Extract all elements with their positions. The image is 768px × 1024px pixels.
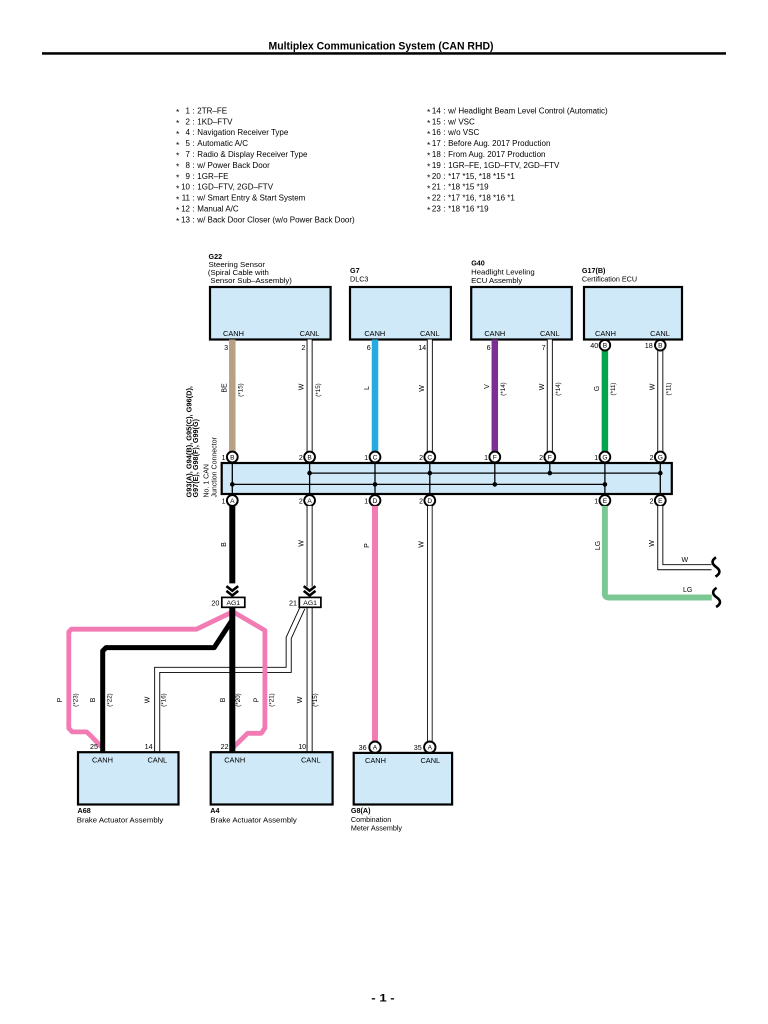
svg-text::: :: [443, 150, 445, 159]
svg-text:LG: LG: [595, 541, 602, 550]
break symbol LG: [713, 588, 720, 607]
svg-text:F: F: [548, 454, 552, 461]
svg-text:B: B: [658, 343, 663, 350]
svg-text:CANH: CANH: [365, 756, 386, 765]
svg-text:35: 35: [414, 743, 422, 752]
svg-text:2TR–FE: 2TR–FE: [197, 106, 227, 115]
svg-text:(*15): (*15): [312, 693, 319, 706]
svg-text:ECU Assembly: ECU Assembly: [471, 276, 522, 285]
svg-text:w/ Back Door Closer (w/o Power: w/ Back Door Closer (w/o Power Back Door…: [196, 215, 355, 224]
svg-text:4: 4: [186, 128, 191, 137]
svg-text:40: 40: [590, 341, 598, 350]
svg-text:B: B: [221, 542, 228, 547]
svg-text::: :: [192, 183, 194, 192]
svg-text:13: 13: [181, 215, 190, 224]
svg-text:W: W: [297, 696, 304, 703]
svg-text:Certification ECU: Certification ECU: [582, 275, 637, 284]
svg-text:1: 1: [594, 498, 598, 505]
svg-text::: :: [443, 161, 445, 170]
svg-text:(*11): (*11): [666, 383, 673, 396]
svg-text:W: W: [649, 540, 656, 547]
svg-text:BE: BE: [221, 383, 228, 393]
svg-text:12: 12: [181, 205, 190, 214]
svg-text:7: 7: [542, 343, 546, 352]
svg-text:W: W: [539, 383, 546, 390]
svg-text:w/ Smart Entry & Start System: w/ Smart Entry & Start System: [196, 194, 305, 203]
svg-text:1: 1: [484, 455, 488, 462]
svg-text:*18 *16 *19: *18 *16 *19: [448, 205, 489, 214]
svg-text::: :: [192, 161, 194, 170]
svg-text:LG: LG: [683, 587, 692, 594]
svg-text:P: P: [57, 697, 64, 702]
svg-text:CANL: CANL: [300, 329, 320, 338]
wire W G40-CANL: [547, 340, 553, 452]
wire BE G22-CANH: [229, 340, 236, 452]
svg-text:Manual A/C: Manual A/C: [197, 205, 239, 214]
svg-text:No. 1 CAN: No. 1 CAN: [203, 464, 210, 497]
connector box G7: [350, 287, 451, 340]
svg-text:Navigation Receiver Type: Navigation Receiver Type: [197, 128, 289, 137]
svg-text:CANH: CANH: [484, 329, 505, 338]
svg-text:C: C: [373, 454, 378, 461]
svg-text:17: 17: [432, 139, 441, 148]
svg-text::: :: [192, 139, 194, 148]
connector box G17(B): [584, 287, 682, 340]
svg-text:W: W: [298, 540, 305, 547]
junction CANL bus: [310, 472, 661, 474]
svg-text::: :: [443, 117, 445, 126]
svg-text:5: 5: [186, 139, 191, 148]
svg-text:10: 10: [181, 183, 190, 192]
svg-text:(*20): (*20): [235, 693, 242, 706]
svg-text:1GR–FE, 1GD–FTV, 2GD–FTV: 1GR–FE, 1GD–FTV, 2GD–FTV: [448, 161, 560, 170]
svg-text:W: W: [649, 383, 656, 390]
svg-text:6: 6: [487, 343, 491, 352]
svg-text:A68: A68: [78, 806, 91, 815]
svg-text:E: E: [658, 498, 663, 505]
wire L G7-CANH: [372, 340, 379, 452]
wire LG junction-1E: [605, 506, 712, 598]
svg-text:W: W: [299, 383, 306, 390]
svg-text::: :: [192, 106, 194, 115]
svg-text:B: B: [90, 697, 97, 702]
svg-text:w/ VSC: w/ VSC: [447, 117, 475, 126]
svg-text:AG1: AG1: [303, 600, 317, 607]
svg-text:From Aug. 2017 Production: From Aug. 2017 Production: [448, 150, 545, 159]
svg-text:Meter Assembly: Meter Assembly: [351, 824, 403, 833]
svg-text:2: 2: [539, 455, 543, 462]
wire W G17-CANL: [657, 351, 663, 452]
G17 pin 40 circle B: [600, 340, 611, 351]
svg-text:C: C: [427, 454, 432, 461]
svg-text:W: W: [145, 696, 152, 703]
connector box G8(A): [354, 753, 452, 805]
svg-text:1: 1: [222, 455, 226, 462]
svg-text:11: 11: [182, 194, 191, 203]
connector box G40: [471, 287, 572, 340]
wire G G17-CANH: [602, 351, 609, 452]
connector AG1-20: [222, 597, 245, 607]
junction internal wires: [231, 463, 233, 494]
junction bus joints: [230, 482, 235, 487]
svg-text:14: 14: [145, 742, 153, 751]
svg-text:*17 *16, *18 *16 *1: *17 *16, *18 *16 *1: [448, 194, 515, 203]
svg-text:(*16): (*16): [160, 693, 167, 706]
svg-text:CANH: CANH: [595, 329, 616, 338]
connector box A4: [211, 752, 333, 804]
svg-text:3: 3: [224, 343, 228, 352]
svg-text:CANH: CANH: [223, 329, 244, 338]
svg-text:(*14): (*14): [555, 382, 562, 395]
svg-text:CANL: CANL: [301, 755, 321, 764]
wire W branch to A68 pin14: [157, 608, 302, 752]
svg-text:(*15): (*15): [315, 383, 322, 396]
svg-text:CANH: CANH: [224, 755, 245, 764]
junction connector box: [222, 463, 672, 494]
svg-text:2: 2: [650, 498, 654, 505]
svg-text:Multiplex Communication System: Multiplex Communication System (CAN RHD): [269, 41, 494, 53]
svg-text:1KD–FTV: 1KD–FTV: [197, 117, 233, 126]
wire W G22-CANL: [307, 340, 313, 452]
svg-text:21: 21: [289, 599, 297, 608]
svg-text::: :: [443, 172, 445, 181]
svg-text:W: W: [682, 557, 689, 564]
connector box A68: [78, 752, 179, 804]
G8 pin 35 circle A: [424, 742, 435, 753]
svg-text:DLC3: DLC3: [350, 275, 368, 284]
svg-text:A: A: [428, 745, 433, 752]
wire W junction-2E: [660, 506, 711, 567]
svg-text:9: 9: [186, 172, 191, 181]
svg-text:A4: A4: [210, 806, 219, 815]
svg-text::: :: [443, 128, 445, 137]
svg-text:2: 2: [419, 498, 423, 505]
svg-text:AG1: AG1: [226, 600, 240, 607]
wire W G7-CANL: [427, 340, 433, 452]
svg-text::: :: [192, 150, 194, 159]
wire B branch to A68 pin25: [103, 620, 233, 753]
svg-text:Before Aug. 2017 Production: Before Aug. 2017 Production: [448, 139, 550, 148]
svg-text:w/ Power Back Door: w/ Power Back Door: [196, 161, 270, 170]
svg-text:W: W: [419, 385, 426, 392]
svg-text:Radio & Display Receiver Type: Radio & Display Receiver Type: [197, 150, 308, 159]
svg-text::: :: [443, 139, 445, 148]
svg-text:A: A: [307, 498, 312, 505]
svg-text:15: 15: [432, 117, 441, 126]
svg-text:2: 2: [299, 455, 303, 462]
svg-text:14: 14: [418, 343, 426, 352]
svg-text:20: 20: [211, 599, 219, 608]
title underline: [42, 52, 726, 55]
svg-text:B: B: [220, 697, 227, 702]
svg-text::: :: [443, 205, 445, 214]
svg-text:B: B: [230, 454, 235, 461]
svg-text:D: D: [427, 498, 432, 505]
svg-text:18: 18: [432, 150, 441, 159]
svg-text:1GD–FTV, 2GD–FTV: 1GD–FTV, 2GD–FTV: [197, 183, 273, 192]
svg-text:6: 6: [367, 343, 371, 352]
svg-text:Junction Connector: Junction Connector: [212, 437, 219, 498]
svg-text:22: 22: [432, 194, 441, 203]
svg-text:23: 23: [432, 205, 441, 214]
svg-text:20: 20: [432, 172, 441, 181]
svg-text:2: 2: [299, 498, 303, 505]
svg-text:25: 25: [90, 742, 98, 751]
svg-text:2: 2: [301, 343, 305, 352]
svg-text:Sensor Sub–Assembly): Sensor Sub–Assembly): [210, 276, 292, 285]
svg-text:14: 14: [432, 106, 441, 115]
svg-text:(*15): (*15): [238, 383, 245, 396]
svg-text::: :: [192, 215, 194, 224]
connector AG1-21: [299, 597, 321, 607]
svg-text:22: 22: [221, 742, 229, 751]
svg-text:G: G: [602, 454, 607, 461]
svg-text:1GR–FE: 1GR–FE: [197, 172, 228, 181]
svg-text:P: P: [364, 543, 371, 548]
svg-text:1: 1: [222, 498, 226, 505]
svg-text:CANL: CANL: [650, 329, 670, 338]
svg-text:F: F: [493, 454, 497, 461]
svg-text::: :: [192, 128, 194, 137]
svg-text::: :: [192, 172, 194, 181]
svg-text:CANL: CANL: [420, 756, 440, 765]
svg-text:(*11): (*11): [610, 383, 617, 396]
svg-text:P: P: [254, 697, 261, 702]
svg-text:G8(A): G8(A): [351, 806, 371, 815]
svg-text:1: 1: [364, 498, 368, 505]
svg-text:CANL: CANL: [420, 329, 440, 338]
svg-text:w/ Headlight Beam Level Contro: w/ Headlight Beam Level Control (Automat…: [447, 106, 608, 115]
wire W junction-2D to G8 pin35: [427, 506, 433, 742]
connector box G22: [210, 287, 331, 340]
svg-text:G97(E), G98(F), G99(G): G97(E), G98(F), G99(G): [193, 419, 200, 498]
svg-text:19: 19: [432, 161, 441, 170]
svg-text:18: 18: [645, 341, 653, 350]
wire P junction-1D to G8 pin36: [372, 506, 378, 742]
svg-text:2: 2: [650, 455, 654, 462]
svg-text:1: 1: [364, 455, 368, 462]
svg-text::: :: [192, 194, 194, 203]
svg-text:B: B: [603, 343, 608, 350]
svg-text:7: 7: [186, 150, 191, 159]
svg-text:CANL: CANL: [540, 329, 560, 338]
svg-text::: :: [443, 183, 445, 192]
svg-text:10: 10: [298, 742, 306, 751]
svg-text:2: 2: [419, 455, 423, 462]
junction CANH bus: [232, 483, 605, 485]
G8 pin 36 circle A: [369, 742, 380, 753]
svg-text:(*23): (*23): [72, 693, 79, 706]
svg-text:CANH: CANH: [364, 329, 385, 338]
svg-text:Brake Actuator Assembly: Brake Actuator Assembly: [210, 816, 297, 825]
svg-text::: :: [192, 117, 194, 126]
svg-text:- 1 -: - 1 -: [371, 993, 395, 1005]
svg-text:L: L: [364, 386, 371, 390]
svg-text:w/o VSC: w/o VSC: [447, 128, 479, 137]
break symbol W: [713, 557, 720, 576]
svg-text:V: V: [484, 384, 491, 389]
svg-text:21: 21: [432, 183, 441, 192]
svg-text:Brake Actuator Assembly: Brake Actuator Assembly: [77, 816, 164, 825]
svg-text:CANH: CANH: [92, 755, 113, 764]
svg-text:16: 16: [432, 128, 441, 137]
svg-text:Automatic A/C: Automatic A/C: [197, 139, 248, 148]
svg-text:*18 *15 *19: *18 *15 *19: [448, 183, 489, 192]
svg-text:G: G: [594, 386, 601, 391]
svg-text::: :: [192, 205, 194, 214]
svg-text:A: A: [230, 498, 235, 505]
svg-text:1: 1: [186, 106, 191, 115]
svg-text:B: B: [307, 454, 312, 461]
svg-text:1: 1: [594, 455, 598, 462]
wire B junction-1A to A4 pin22: [229, 506, 235, 584]
svg-text:W: W: [419, 541, 426, 548]
svg-text:8: 8: [186, 161, 191, 170]
svg-text:CANL: CANL: [147, 755, 167, 764]
svg-text:D: D: [373, 498, 378, 505]
wire P loop (*23/*21): [69, 612, 265, 752]
svg-text:(*14): (*14): [500, 382, 507, 395]
svg-text:(*21): (*21): [269, 693, 276, 706]
svg-text::: :: [443, 106, 445, 115]
svg-text:*17 *15, *18 *15 *1: *17 *15, *18 *15 *1: [448, 172, 515, 181]
svg-text:2: 2: [186, 117, 191, 126]
svg-text:36: 36: [359, 743, 367, 752]
wire V G40-CANH: [492, 340, 499, 452]
svg-text:G: G: [658, 454, 663, 461]
arrow to AG1-20: [226, 586, 238, 591]
svg-text:A: A: [373, 745, 378, 752]
svg-text:(*22): (*22): [107, 693, 114, 706]
arrow to AG1-21: [304, 586, 316, 591]
svg-text::: :: [443, 194, 445, 203]
svg-text:G40: G40: [471, 258, 485, 267]
G17 pin 18 circle B: [655, 340, 666, 351]
svg-text:E: E: [603, 498, 608, 505]
wire W junction-2A to A4 pin10: [307, 506, 313, 587]
